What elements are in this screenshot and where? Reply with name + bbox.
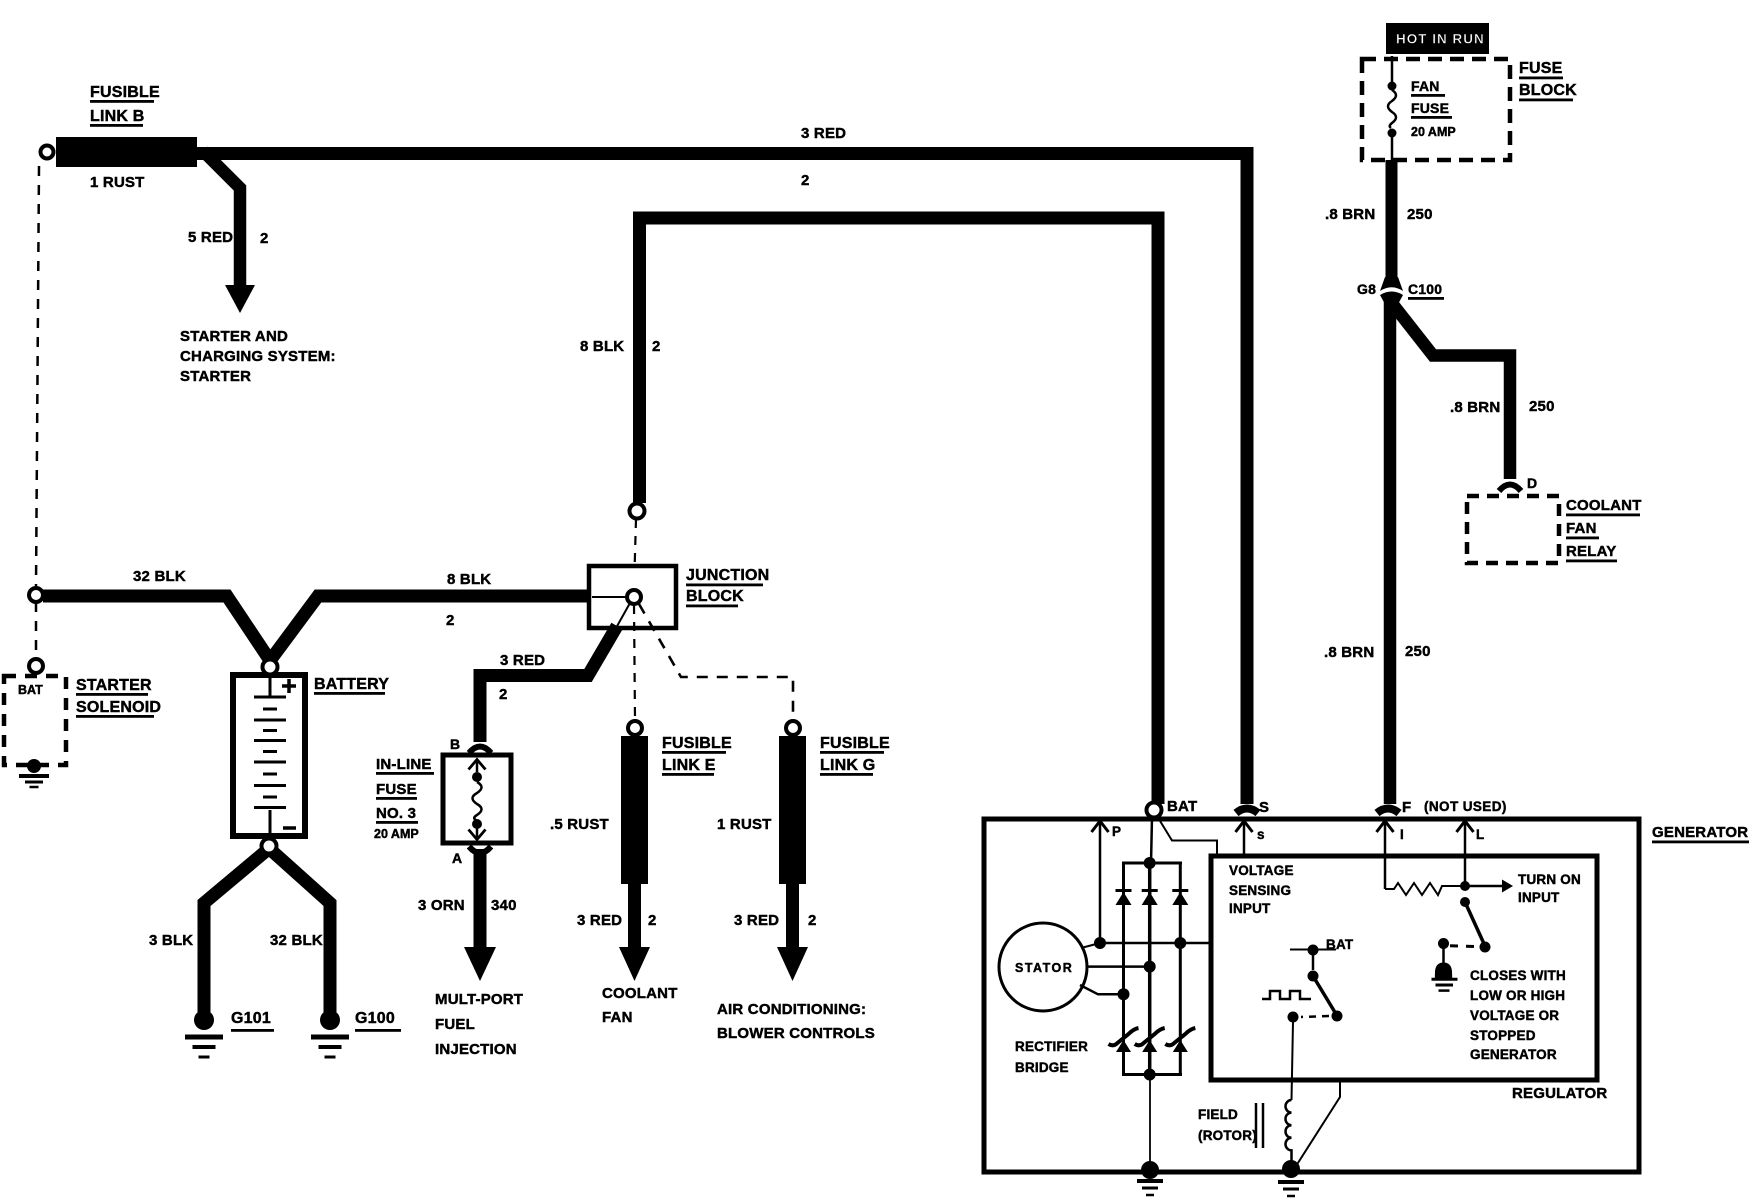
svg-text:1 RUST: 1 RUST bbox=[717, 816, 772, 833]
svg-text:COOLANT: COOLANT bbox=[1566, 497, 1642, 514]
ground (starter solenoid) bbox=[19, 759, 49, 787]
svg-text:20 AMP: 20 AMP bbox=[374, 827, 419, 841]
node (bridge right branch) bbox=[1174, 937, 1186, 949]
diode (bridge left) bbox=[1116, 891, 1132, 906]
svg-text:FAN: FAN bbox=[1411, 78, 1440, 94]
svg-text:3 RED: 3 RED bbox=[500, 652, 545, 669]
label C100 bbox=[1408, 281, 1444, 300]
wire .8 BRN : C100 to generator F terminal bbox=[1384, 302, 1397, 804]
svg-text:3 ORN: 3 ORN bbox=[418, 897, 465, 914]
wire : voltage sensing line to regulator bbox=[1100, 942, 1210, 945]
svg-text:IN-LINE: IN-LINE bbox=[376, 756, 432, 773]
dashed wire : junction block to fusible link G bbox=[639, 604, 793, 720]
svg-text:S: S bbox=[1259, 799, 1269, 816]
svg-text:A: A bbox=[452, 850, 462, 866]
svg-text:250: 250 bbox=[1407, 206, 1433, 223]
svg-text:.8 BRN: .8 BRN bbox=[1324, 644, 1374, 661]
text MULT-PORT FUEL INJECTION bbox=[435, 991, 523, 1058]
svg-text:STATOR: STATOR bbox=[1015, 961, 1073, 975]
dashed wire : node to starter solenoid bbox=[35, 602, 38, 660]
stator bbox=[999, 923, 1087, 1011]
wire 3 RED : junction block to in-line fuse bbox=[480, 626, 617, 742]
wire : BAT terminal into bridge bbox=[1151, 817, 1152, 864]
zener diode (bridge left) bbox=[1109, 1028, 1139, 1052]
svg-text:32 BLK: 32 BLK bbox=[270, 932, 323, 949]
svg-text:BATTERY: BATTERY bbox=[314, 676, 389, 693]
label G101 bbox=[231, 1010, 274, 1032]
arrowhead s bbox=[1236, 821, 1253, 832]
svg-text:RELAY: RELAY bbox=[1566, 543, 1616, 560]
connector at relay terminal D bbox=[1499, 485, 1521, 492]
svg-text:2: 2 bbox=[260, 230, 269, 247]
connector G8 / C100 bbox=[1380, 277, 1403, 306]
svg-text:FUSE: FUSE bbox=[1411, 100, 1449, 116]
label JUNCTION BLOCK bbox=[686, 567, 769, 607]
label STARTER SOLENOID bbox=[76, 677, 161, 718]
wire : stator middle phase bbox=[1087, 965, 1150, 968]
svg-text:3 RED: 3 RED bbox=[801, 125, 846, 142]
svg-text:NO. 3: NO. 3 bbox=[376, 805, 416, 822]
connector ring at fusible link B bbox=[41, 146, 54, 159]
resistor (field feed) bbox=[1385, 883, 1465, 895]
svg-text:FUSE: FUSE bbox=[1519, 60, 1563, 77]
svg-text:s: s bbox=[1257, 827, 1265, 842]
node (bridge middle branch) bbox=[1144, 961, 1156, 973]
pulse waveform symbol bbox=[1262, 991, 1311, 999]
svg-text:32 BLK: 32 BLK bbox=[133, 568, 186, 585]
P terminal arrow bbox=[1099, 823, 1102, 943]
svg-text:LINK B: LINK B bbox=[90, 108, 145, 125]
svg-text:2: 2 bbox=[652, 338, 661, 355]
wire .8 BRN : fuse block to C100 bbox=[1386, 160, 1398, 281]
svg-text:3 BLK: 3 BLK bbox=[149, 932, 193, 949]
svg-text:STOPPED: STOPPED bbox=[1470, 1028, 1536, 1043]
arrowhead L bbox=[1457, 821, 1474, 832]
node (turn on) bbox=[1460, 881, 1470, 891]
label FAN FUSE / 20 AMP bbox=[1411, 78, 1456, 139]
wire 3 RED to A/C blower controls bbox=[786, 884, 799, 948]
svg-text:SENSING: SENSING bbox=[1229, 883, 1291, 898]
svg-text:LOW OR HIGH: LOW OR HIGH bbox=[1470, 988, 1565, 1003]
svg-text:.5 RUST: .5 RUST bbox=[550, 816, 609, 833]
node (bridge top bus) bbox=[1144, 857, 1156, 869]
connector at in-line fuse B bbox=[469, 747, 491, 754]
connector ring (fusible link E) bbox=[628, 721, 642, 735]
svg-text:(NOT USED): (NOT USED) bbox=[1424, 799, 1507, 814]
connector at in-line fuse A bbox=[469, 847, 491, 854]
svg-text:2: 2 bbox=[446, 612, 455, 629]
svg-text:(ROTOR): (ROTOR) bbox=[1198, 1128, 1257, 1143]
generator box bbox=[984, 819, 1639, 1172]
svg-text:TURN ON: TURN ON bbox=[1518, 872, 1581, 887]
svg-text:BLOCK: BLOCK bbox=[1519, 82, 1577, 99]
svg-text:FIELD: FIELD bbox=[1198, 1107, 1238, 1122]
zener diode (bridge right) bbox=[1165, 1028, 1195, 1052]
zener diode (bridge middle) bbox=[1135, 1028, 1165, 1052]
dashed wire : ring to junction block bbox=[634, 519, 636, 589]
svg-text:REGULATOR: REGULATOR bbox=[1512, 1085, 1607, 1102]
node (bridge left branch) bbox=[1118, 988, 1130, 1000]
svg-text:FUSE: FUSE bbox=[376, 781, 417, 798]
svg-text:JUNCTION: JUNCTION bbox=[686, 567, 769, 584]
svg-text:20 AMP: 20 AMP bbox=[1411, 125, 1456, 139]
svg-text:8 BLK: 8 BLK bbox=[447, 571, 491, 588]
connector ring (BAT terminal) bbox=[1147, 803, 1162, 818]
wire : switch to field coil bbox=[1292, 1022, 1294, 1100]
label IN-LINE FUSE NO. 3 / 20 AMP bbox=[374, 756, 434, 841]
regulator box bbox=[1211, 856, 1597, 1080]
svg-text:AIR CONDITIONING:: AIR CONDITIONING: bbox=[717, 1001, 866, 1018]
node (bridge bottom bus) bbox=[1144, 1069, 1156, 1081]
coolant fan relay (dashed box) bbox=[1467, 496, 1559, 563]
label VOLTAGE SENSING INPUT bbox=[1229, 863, 1294, 916]
node P bbox=[1094, 937, 1106, 949]
svg-text:D: D bbox=[1527, 475, 1537, 491]
connector at S terminal bbox=[1236, 809, 1258, 814]
svg-text:FUSIBLE: FUSIBLE bbox=[820, 735, 890, 752]
wire : stator to P node bbox=[1081, 943, 1100, 948]
svg-text:G100: G100 bbox=[355, 1010, 395, 1027]
svg-text:340: 340 bbox=[491, 897, 517, 914]
svg-text:BLOCK: BLOCK bbox=[686, 588, 744, 605]
wire : BAT sense into regulator bbox=[1157, 816, 1217, 855]
svg-text:LINK E: LINK E bbox=[662, 757, 716, 774]
label FUSIBLE LINK E bbox=[662, 735, 732, 776]
svg-text:COOLANT: COOLANT bbox=[602, 985, 678, 1002]
wire 5 RED to starter bbox=[203, 151, 240, 288]
svg-text:INPUT: INPUT bbox=[1518, 890, 1560, 905]
svg-text:SOLENOID: SOLENOID bbox=[76, 699, 161, 716]
fusible link E bbox=[621, 736, 648, 884]
svg-text:HOT IN RUN: HOT IN RUN bbox=[1396, 32, 1485, 47]
svg-text:VOLTAGE: VOLTAGE bbox=[1229, 863, 1294, 878]
wire 3 ORN to multi-port fuel injection bbox=[474, 849, 487, 948]
svg-text:STARTER: STARTER bbox=[180, 368, 251, 385]
wire .8 BRN : C100 to coolant fan relay D bbox=[1391, 302, 1510, 479]
svg-text:.8 BRN: .8 BRN bbox=[1450, 399, 1500, 416]
connector ring (fusible link G) bbox=[786, 721, 800, 735]
svg-text:3 RED: 3 RED bbox=[577, 912, 622, 929]
svg-text:CHARGING SYSTEM:: CHARGING SYSTEM: bbox=[180, 348, 336, 365]
rotor core bars bbox=[1256, 1103, 1263, 1148]
diode (bridge right) bbox=[1172, 891, 1188, 906]
svg-text:B: B bbox=[450, 736, 460, 752]
svg-text:2: 2 bbox=[801, 172, 810, 189]
HOT IN RUN banner bbox=[1386, 23, 1489, 54]
connector ring (battery +) bbox=[263, 660, 278, 675]
svg-text:L: L bbox=[1476, 827, 1484, 842]
svg-text:2: 2 bbox=[499, 686, 508, 703]
arrowhead I bbox=[1377, 821, 1394, 832]
connector ring (battery -) bbox=[262, 839, 277, 854]
wire : field return to ground bbox=[1296, 1080, 1340, 1166]
I input arrow bbox=[1384, 823, 1387, 889]
svg-text:STARTER: STARTER bbox=[76, 677, 152, 694]
ground (field) bbox=[1278, 1160, 1304, 1196]
svg-text:250: 250 bbox=[1529, 398, 1555, 415]
svg-text:FAN: FAN bbox=[1566, 520, 1597, 537]
connector ring (starter solenoid BAT) bbox=[29, 659, 43, 673]
label COOLANT FAN RELAY bbox=[1566, 497, 1642, 562]
svg-text:C100: C100 bbox=[1408, 281, 1442, 297]
label BATTERY bbox=[314, 676, 389, 695]
wire 32 BLK : battery - to G100 bbox=[272, 851, 330, 1012]
field (rotor) coil bbox=[1285, 1100, 1291, 1162]
svg-text:2: 2 bbox=[808, 912, 817, 929]
svg-text:F: F bbox=[1402, 799, 1411, 816]
L input arrow bbox=[1464, 823, 1467, 886]
text STARTER AND CHARGING SYSTEM: STARTER bbox=[180, 328, 336, 385]
turn on output arrow bbox=[1465, 885, 1502, 888]
label FIELD (ROTOR) bbox=[1198, 1107, 1257, 1143]
label CLOSES WITH LOW OR HIGH VOLTAGE OR STOPPED GENERATOR bbox=[1470, 968, 1566, 1062]
wire 3 BLK : battery - to G101 bbox=[204, 851, 266, 1012]
ground (generator case) bbox=[1137, 1161, 1163, 1195]
svg-text:I: I bbox=[1400, 827, 1404, 842]
wire : stator lower phase bbox=[1080, 985, 1124, 994]
label G100 bbox=[355, 1010, 401, 1032]
diode (bridge middle) bbox=[1142, 891, 1158, 906]
fan fuse element bbox=[1388, 56, 1397, 160]
dashed wire : fusible link B to 32 BLK node bbox=[36, 166, 39, 586]
fusible link B bbox=[56, 137, 197, 167]
s input arrow bbox=[1243, 823, 1246, 856]
wire 3 RED : fusible link B to generator S terminal bbox=[197, 154, 1247, 805]
svg-text:BLOWER CONTROLS: BLOWER CONTROLS bbox=[717, 1025, 875, 1042]
svg-text:1 RUST: 1 RUST bbox=[90, 174, 145, 191]
wire : bridge to case ground bbox=[1149, 1076, 1151, 1162]
fuse block (dashed box) bbox=[1362, 59, 1510, 160]
svg-text:CLOSES WITH: CLOSES WITH bbox=[1470, 968, 1566, 983]
junction block bbox=[589, 566, 676, 628]
label RECTIFIER BRIDGE bbox=[1015, 1039, 1088, 1075]
ground G100 bbox=[311, 1010, 349, 1057]
label FUSIBLE LINK G bbox=[820, 735, 890, 776]
svg-text:INPUT: INPUT bbox=[1229, 901, 1271, 916]
svg-text:FUEL: FUEL bbox=[435, 1016, 475, 1033]
rectifier bridge bbox=[1122, 863, 1182, 1075]
svg-text:2: 2 bbox=[648, 912, 657, 929]
svg-text:FUSIBLE: FUSIBLE bbox=[662, 735, 732, 752]
svg-text:MULT-PORT: MULT-PORT bbox=[435, 991, 523, 1008]
label TURN ON INPUT bbox=[1518, 872, 1581, 905]
svg-text:BAT: BAT bbox=[18, 683, 43, 697]
svg-text:250: 250 bbox=[1405, 643, 1431, 660]
connector ring (8 BLK above junction block) bbox=[630, 504, 645, 519]
label FUSIBLE LINK B bbox=[90, 84, 160, 127]
label FUSE BLOCK bbox=[1519, 60, 1577, 101]
svg-text:P: P bbox=[1112, 824, 1121, 839]
svg-text:BRIDGE: BRIDGE bbox=[1015, 1060, 1069, 1075]
ground (voltage switch) bbox=[1432, 963, 1458, 991]
svg-text:VOLTAGE OR: VOLTAGE OR bbox=[1470, 1008, 1559, 1023]
voltage switch bbox=[1438, 897, 1491, 964]
svg-text:STARTER AND: STARTER AND bbox=[180, 328, 288, 345]
svg-text:INJECTION: INJECTION bbox=[435, 1041, 517, 1058]
svg-text:BAT: BAT bbox=[1167, 798, 1197, 815]
svg-text:GENERATOR: GENERATOR bbox=[1652, 824, 1748, 841]
label GENERATOR bbox=[1652, 824, 1749, 843]
battery bbox=[233, 675, 305, 836]
wire 8 BLK : top run down to junction area bbox=[640, 218, 1159, 804]
svg-text:G101: G101 bbox=[231, 1010, 271, 1027]
svg-text:5 RED: 5 RED bbox=[188, 229, 233, 246]
connector at F terminal bbox=[1377, 809, 1399, 814]
svg-text:3 RED: 3 RED bbox=[734, 912, 779, 929]
svg-text:FAN: FAN bbox=[602, 1009, 633, 1026]
wire 32 BLK : node to battery + bbox=[43, 596, 271, 662]
starter solenoid (dashed box) bbox=[4, 676, 66, 765]
in-line fuse No. 3 bbox=[443, 755, 511, 843]
text AIR CONDITIONING: BLOWER CONTROLS bbox=[717, 1001, 875, 1042]
dashed wire : junction block to fusible link E bbox=[634, 605, 635, 720]
BAT contact switch bbox=[1288, 945, 1343, 1023]
svg-text:GENERATOR: GENERATOR bbox=[1470, 1047, 1557, 1062]
svg-text:G8: G8 bbox=[1357, 281, 1376, 297]
svg-text:FUSIBLE: FUSIBLE bbox=[90, 84, 160, 101]
svg-text:RECTIFIER: RECTIFIER bbox=[1015, 1039, 1088, 1054]
wire 8 BLK : battery + to junction block bbox=[269, 596, 589, 662]
wire 3 RED to coolant fan bbox=[628, 884, 641, 948]
arrowhead P bbox=[1092, 821, 1109, 832]
svg-text:LINK G: LINK G bbox=[820, 757, 875, 774]
svg-text:8 BLK: 8 BLK bbox=[580, 338, 624, 355]
fusible link G bbox=[779, 736, 806, 884]
ground G101 bbox=[185, 1010, 223, 1057]
svg-text:.8 BRN: .8 BRN bbox=[1325, 206, 1375, 223]
text COOLANT FAN bbox=[602, 985, 678, 1026]
